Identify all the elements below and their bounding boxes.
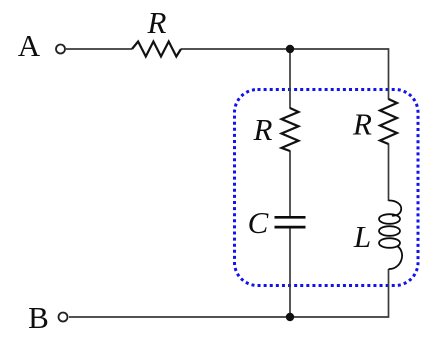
wire bottom	[69, 316, 290, 318]
node top junction	[286, 45, 294, 53]
wire top from resistor to right corner	[181, 48, 389, 50]
svg-text:R: R	[147, 5, 167, 40]
wire left branch middle	[289, 151, 291, 217]
inductor L	[379, 200, 402, 269]
wire left branch upper	[289, 49, 291, 109]
wire left branch lower	[289, 229, 291, 318]
svg-text:R: R	[253, 112, 273, 147]
dotted selection box	[235, 90, 419, 286]
svg-text:R: R	[352, 107, 372, 142]
resistor R left	[282, 108, 299, 151]
node bottom junction	[286, 313, 294, 321]
resistor R top	[132, 42, 181, 57]
wire right branch middle	[388, 144, 390, 202]
resistor R right	[380, 99, 397, 144]
terminal B circle	[59, 313, 68, 322]
wire right vertical upper	[388, 48, 390, 99]
capacitor C plates	[275, 217, 306, 227]
svg-text:C: C	[248, 205, 269, 240]
svg-text:B: B	[28, 300, 49, 335]
wire right branch lower	[290, 269, 389, 317]
svg-text:A: A	[18, 28, 41, 63]
wire A lead	[66, 48, 132, 50]
terminal A circle	[56, 45, 65, 54]
svg-text:L: L	[353, 219, 371, 254]
